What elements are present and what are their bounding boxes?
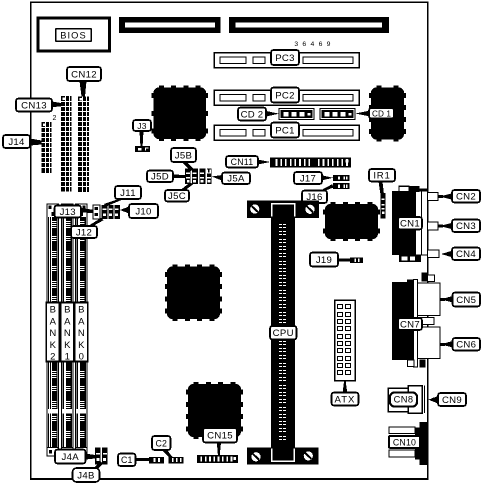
slot PC2 (214, 90, 359, 105)
svg-text:CN13: CN13 (21, 100, 47, 111)
pointer J5C (181, 183, 194, 191)
svg-text:CN6: CN6 (456, 340, 476, 351)
connector CD1 header (320, 109, 355, 120)
label J19 (310, 253, 338, 267)
svg-text:CN9: CN9 (442, 395, 462, 406)
label PC2 callout (271, 88, 299, 103)
CPU slot top bracket (247, 201, 319, 219)
pointer J5B (181, 162, 194, 172)
pointer J19 (338, 259, 350, 262)
connector J4A/J4B block (95, 448, 108, 465)
label CD1 (369, 108, 394, 119)
connector CN2 port stub (428, 193, 439, 201)
svg-text:N: N (78, 328, 85, 339)
pointer C2 (162, 450, 173, 458)
connector CN8 (388, 386, 425, 414)
label J14 (3, 135, 30, 148)
BANK2 label (46, 303, 59, 363)
pointer CN2 (440, 193, 452, 199)
svg-text:CN15: CN15 (207, 431, 233, 442)
svg-text:CN12: CN12 (71, 69, 97, 80)
chip U1 top-left QFP (151, 85, 208, 141)
pointer CN11 (258, 160, 270, 165)
svg-text:J11: J11 (120, 188, 136, 199)
label J5D (147, 171, 173, 183)
slot PC1 (214, 125, 359, 140)
pointer J16 (321, 184, 335, 190)
chip U2 right QFP (369, 85, 406, 141)
pointer IR1 (379, 182, 384, 194)
label C2 (152, 436, 171, 450)
label CPU (270, 326, 297, 340)
BIOS chip box (38, 18, 110, 51)
pointer CN15 (217, 443, 221, 456)
connector ATX (335, 300, 356, 381)
label CN2 (452, 190, 480, 203)
label J12 (71, 226, 97, 238)
connector J14 header (42, 122, 52, 173)
svg-text:J5B: J5B (175, 150, 192, 161)
label CN5 (453, 293, 481, 307)
svg-text:N: N (64, 328, 71, 339)
pointer J5D (173, 175, 185, 179)
svg-text:J12: J12 (76, 227, 92, 238)
svg-text:1: 1 (65, 352, 70, 363)
label CN15 (203, 428, 237, 443)
label CN11 (226, 156, 258, 168)
label C1 (118, 454, 136, 467)
CPU slot body (271, 218, 295, 448)
pointer J11 (104, 199, 125, 207)
svg-text:CN10: CN10 (393, 437, 416, 447)
pointer J13 (81, 208, 93, 213)
label BIOS (56, 29, 91, 41)
pointer CN3 (440, 223, 452, 229)
jumper block J10/J11/J12 (102, 205, 121, 219)
label IR1 (369, 169, 395, 182)
label CN4 (452, 248, 480, 261)
svg-text:J4A: J4A (62, 452, 80, 463)
CPU slot bottom bracket (247, 448, 319, 465)
label J3 (133, 120, 151, 131)
pointer J14 (30, 139, 42, 146)
pointer CD2 (264, 111, 279, 118)
capacitor C2 (169, 457, 184, 463)
pointer J5A (212, 175, 223, 181)
jumper J16 header (333, 183, 350, 189)
svg-text:K: K (78, 340, 85, 351)
svg-text:2: 2 (50, 352, 55, 363)
svg-text:A: A (64, 316, 71, 327)
svg-text:CD 1: CD 1 (372, 110, 391, 119)
memory slot BANK0 slot (76, 204, 88, 456)
chip U4 center QFP (165, 264, 222, 321)
pointer J4A (86, 454, 96, 460)
svg-text:CN1: CN1 (400, 219, 420, 230)
BANK1 label (61, 303, 74, 363)
connector CN3 port stub (428, 222, 439, 230)
svg-text:CD 2: CD 2 (241, 109, 264, 120)
label CN6 (453, 338, 481, 351)
svg-text:CN3: CN3 (456, 221, 476, 232)
svg-text:PC2: PC2 (275, 90, 295, 101)
label J10 (129, 204, 158, 218)
label CN7 (398, 318, 422, 330)
chip U5 bottom QFP (186, 382, 243, 439)
pointer CN12 (80, 81, 87, 97)
pointer C1 (136, 458, 150, 461)
top edge connector bar 1 (119, 17, 220, 33)
connector CN1 block (392, 186, 428, 262)
label CN3 (452, 220, 480, 233)
svg-text:CN2: CN2 (456, 192, 476, 203)
svg-text:K: K (50, 340, 57, 351)
svg-text:IR1: IR1 (373, 171, 390, 182)
svg-text:CN8: CN8 (394, 394, 414, 404)
label J17 (294, 172, 322, 184)
svg-text:0: 0 (79, 352, 84, 363)
svg-text:J5C: J5C (168, 191, 186, 202)
svg-text:J3: J3 (137, 121, 147, 131)
connector CD2 header (279, 109, 314, 120)
label J4B (73, 468, 100, 482)
label CN1 (398, 217, 422, 230)
jumper J17 header (333, 175, 350, 181)
connector CN4 port stub (428, 250, 440, 258)
pointer J10 (120, 207, 129, 214)
svg-text:CN5: CN5 (456, 295, 476, 306)
connector CN10 (389, 422, 428, 465)
svg-text:J5A: J5A (227, 174, 245, 185)
svg-text:CN7: CN7 (400, 319, 420, 330)
pointer CN13 (52, 102, 61, 108)
svg-text:PC3: PC3 (275, 53, 295, 64)
connector CN11 (270, 158, 351, 168)
label CN9 (438, 393, 466, 406)
pointer J4B (93, 462, 104, 469)
label J5C (165, 190, 189, 202)
svg-text:J4B: J4B (77, 470, 94, 481)
svg-text:C2: C2 (156, 438, 167, 448)
label J16 (302, 191, 327, 204)
svg-text:B: B (64, 305, 70, 316)
label PC1 callout (271, 123, 299, 138)
connector CN7 D-sub stack (392, 273, 440, 368)
pointer CN4 (441, 251, 452, 257)
svg-text:J5D: J5D (151, 172, 169, 183)
label CN13 (16, 99, 52, 112)
label ATX (332, 393, 359, 406)
svg-text:B: B (50, 305, 56, 316)
jumper block J5A-J5D (185, 169, 212, 185)
memory slot BANK2 slot (47, 204, 59, 456)
svg-text:B: B (78, 305, 84, 316)
pointer J3 (140, 131, 144, 146)
pointer CN6 (441, 341, 453, 348)
label J5A (222, 173, 250, 185)
BANK0 label (75, 303, 88, 363)
svg-text:J17: J17 (300, 173, 316, 184)
svg-text:ATX: ATX (335, 394, 356, 405)
label CN10 (389, 436, 420, 448)
pointer CD1 (355, 111, 370, 117)
jumper J3 (135, 146, 150, 152)
svg-text:2: 2 (53, 115, 57, 122)
svg-text:J14: J14 (8, 137, 25, 148)
svg-text:PC1: PC1 (275, 125, 295, 136)
pointer ATX (343, 381, 348, 393)
svg-text:A: A (50, 316, 57, 327)
jumper J19 (350, 258, 363, 264)
label J11 (115, 186, 141, 199)
label PC3 callout (271, 50, 299, 65)
pointer J12 (88, 218, 104, 226)
svg-text:K: K (64, 340, 71, 351)
svg-text:N: N (49, 328, 56, 339)
chip U3 mid-right QFP (323, 202, 380, 241)
label J4A (55, 450, 86, 464)
svg-text:CN4: CN4 (456, 249, 476, 260)
label CD2 (238, 108, 266, 121)
svg-text:3 6 4 6 9: 3 6 4 6 9 (294, 41, 331, 48)
top edge connector bar 2 (229, 17, 389, 33)
svg-text:J13: J13 (60, 207, 76, 218)
connector CN15 (197, 455, 238, 463)
pointer CN5 (441, 296, 453, 303)
svg-text:A: A (78, 316, 85, 327)
svg-text:J19: J19 (316, 255, 332, 266)
connector J13 single column (93, 205, 100, 219)
connector CN13 header (61, 96, 72, 192)
label CN12 (67, 67, 101, 81)
label J5B (171, 148, 196, 162)
pointer J17 (322, 175, 333, 180)
memory slot BANK1 slot (62, 204, 74, 456)
svg-text:CN11: CN11 (231, 157, 254, 167)
svg-text:BIOS: BIOS (60, 30, 87, 40)
capacitor C1 (149, 457, 164, 463)
slot PC3 (214, 53, 359, 68)
svg-text:J10: J10 (135, 206, 151, 217)
pointer CN9 (429, 396, 439, 404)
label J13 (55, 206, 82, 218)
svg-text:CPU: CPU (273, 328, 294, 339)
connector IR1 (381, 193, 386, 219)
svg-text:C1: C1 (121, 455, 132, 465)
connector CN12 header (78, 97, 89, 193)
